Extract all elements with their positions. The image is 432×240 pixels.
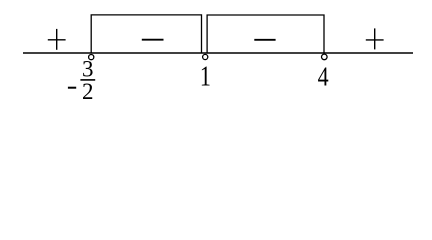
svg-text:2: 2: [82, 79, 94, 104]
svg-text:1: 1: [200, 62, 211, 93]
svg-text:4: 4: [318, 61, 329, 91]
svg-text:3: 3: [82, 57, 94, 82]
